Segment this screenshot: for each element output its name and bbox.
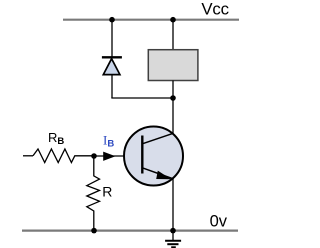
arrow IB base current [103, 152, 115, 161]
wire: Vcc rail to relay top [172, 20, 174, 50]
transistor Q1 NPN [124, 127, 183, 186]
node: collector junction [170, 95, 176, 101]
resistor RB [23, 149, 94, 163]
wire: base node to transistor base [94, 155, 142, 157]
ground [165, 231, 181, 248]
wire: Vcc rail to diode cathode [111, 20, 113, 57]
wire: diode anode down [111, 75, 113, 98]
wire: collector node down through transistor to 0v rail [172, 98, 174, 231]
Vcc rail [63, 19, 239, 21]
wire: diode bottom to collector node [111, 97, 173, 99]
svg-text:Vcc: Vcc [201, 0, 228, 19]
svg-text:R: R [102, 184, 112, 200]
0v rail [22, 230, 238, 232]
wire: relay bottom to collector node [172, 81, 174, 99]
node: base junction [91, 153, 97, 159]
diode D1 flywheel [102, 57, 122, 74]
node: R bottom junction [91, 228, 97, 234]
svg-text:0v: 0v [210, 212, 228, 230]
node: relay tap on Vcc rail [170, 17, 176, 23]
resistor R [87, 156, 100, 231]
node: emitter junction on 0v rail [170, 228, 176, 234]
svg-text:IB: IB [103, 132, 114, 149]
node: diode tap on Vcc rail [109, 17, 115, 23]
relay coil [148, 50, 198, 81]
svg-text:RB: RB [48, 130, 64, 147]
